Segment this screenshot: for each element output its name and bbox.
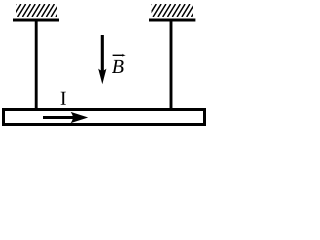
left suspension wire	[35, 20, 38, 110]
right ceiling support hatching	[144, 4, 200, 17]
left ceiling support base line	[13, 19, 59, 22]
magnetic field arrow head	[98, 69, 106, 85]
current arrow head	[71, 112, 89, 123]
vector arrow over B	[113, 54, 124, 56]
label B	[112, 60, 124, 73]
magnetic field arrow shaft	[101, 35, 104, 74]
label I	[61, 92, 66, 105]
current arrow shaft	[43, 116, 75, 119]
right ceiling support base line	[149, 19, 195, 22]
conducting rod	[4, 110, 205, 125]
right suspension wire	[170, 20, 173, 110]
left ceiling support hatching	[8, 4, 64, 17]
